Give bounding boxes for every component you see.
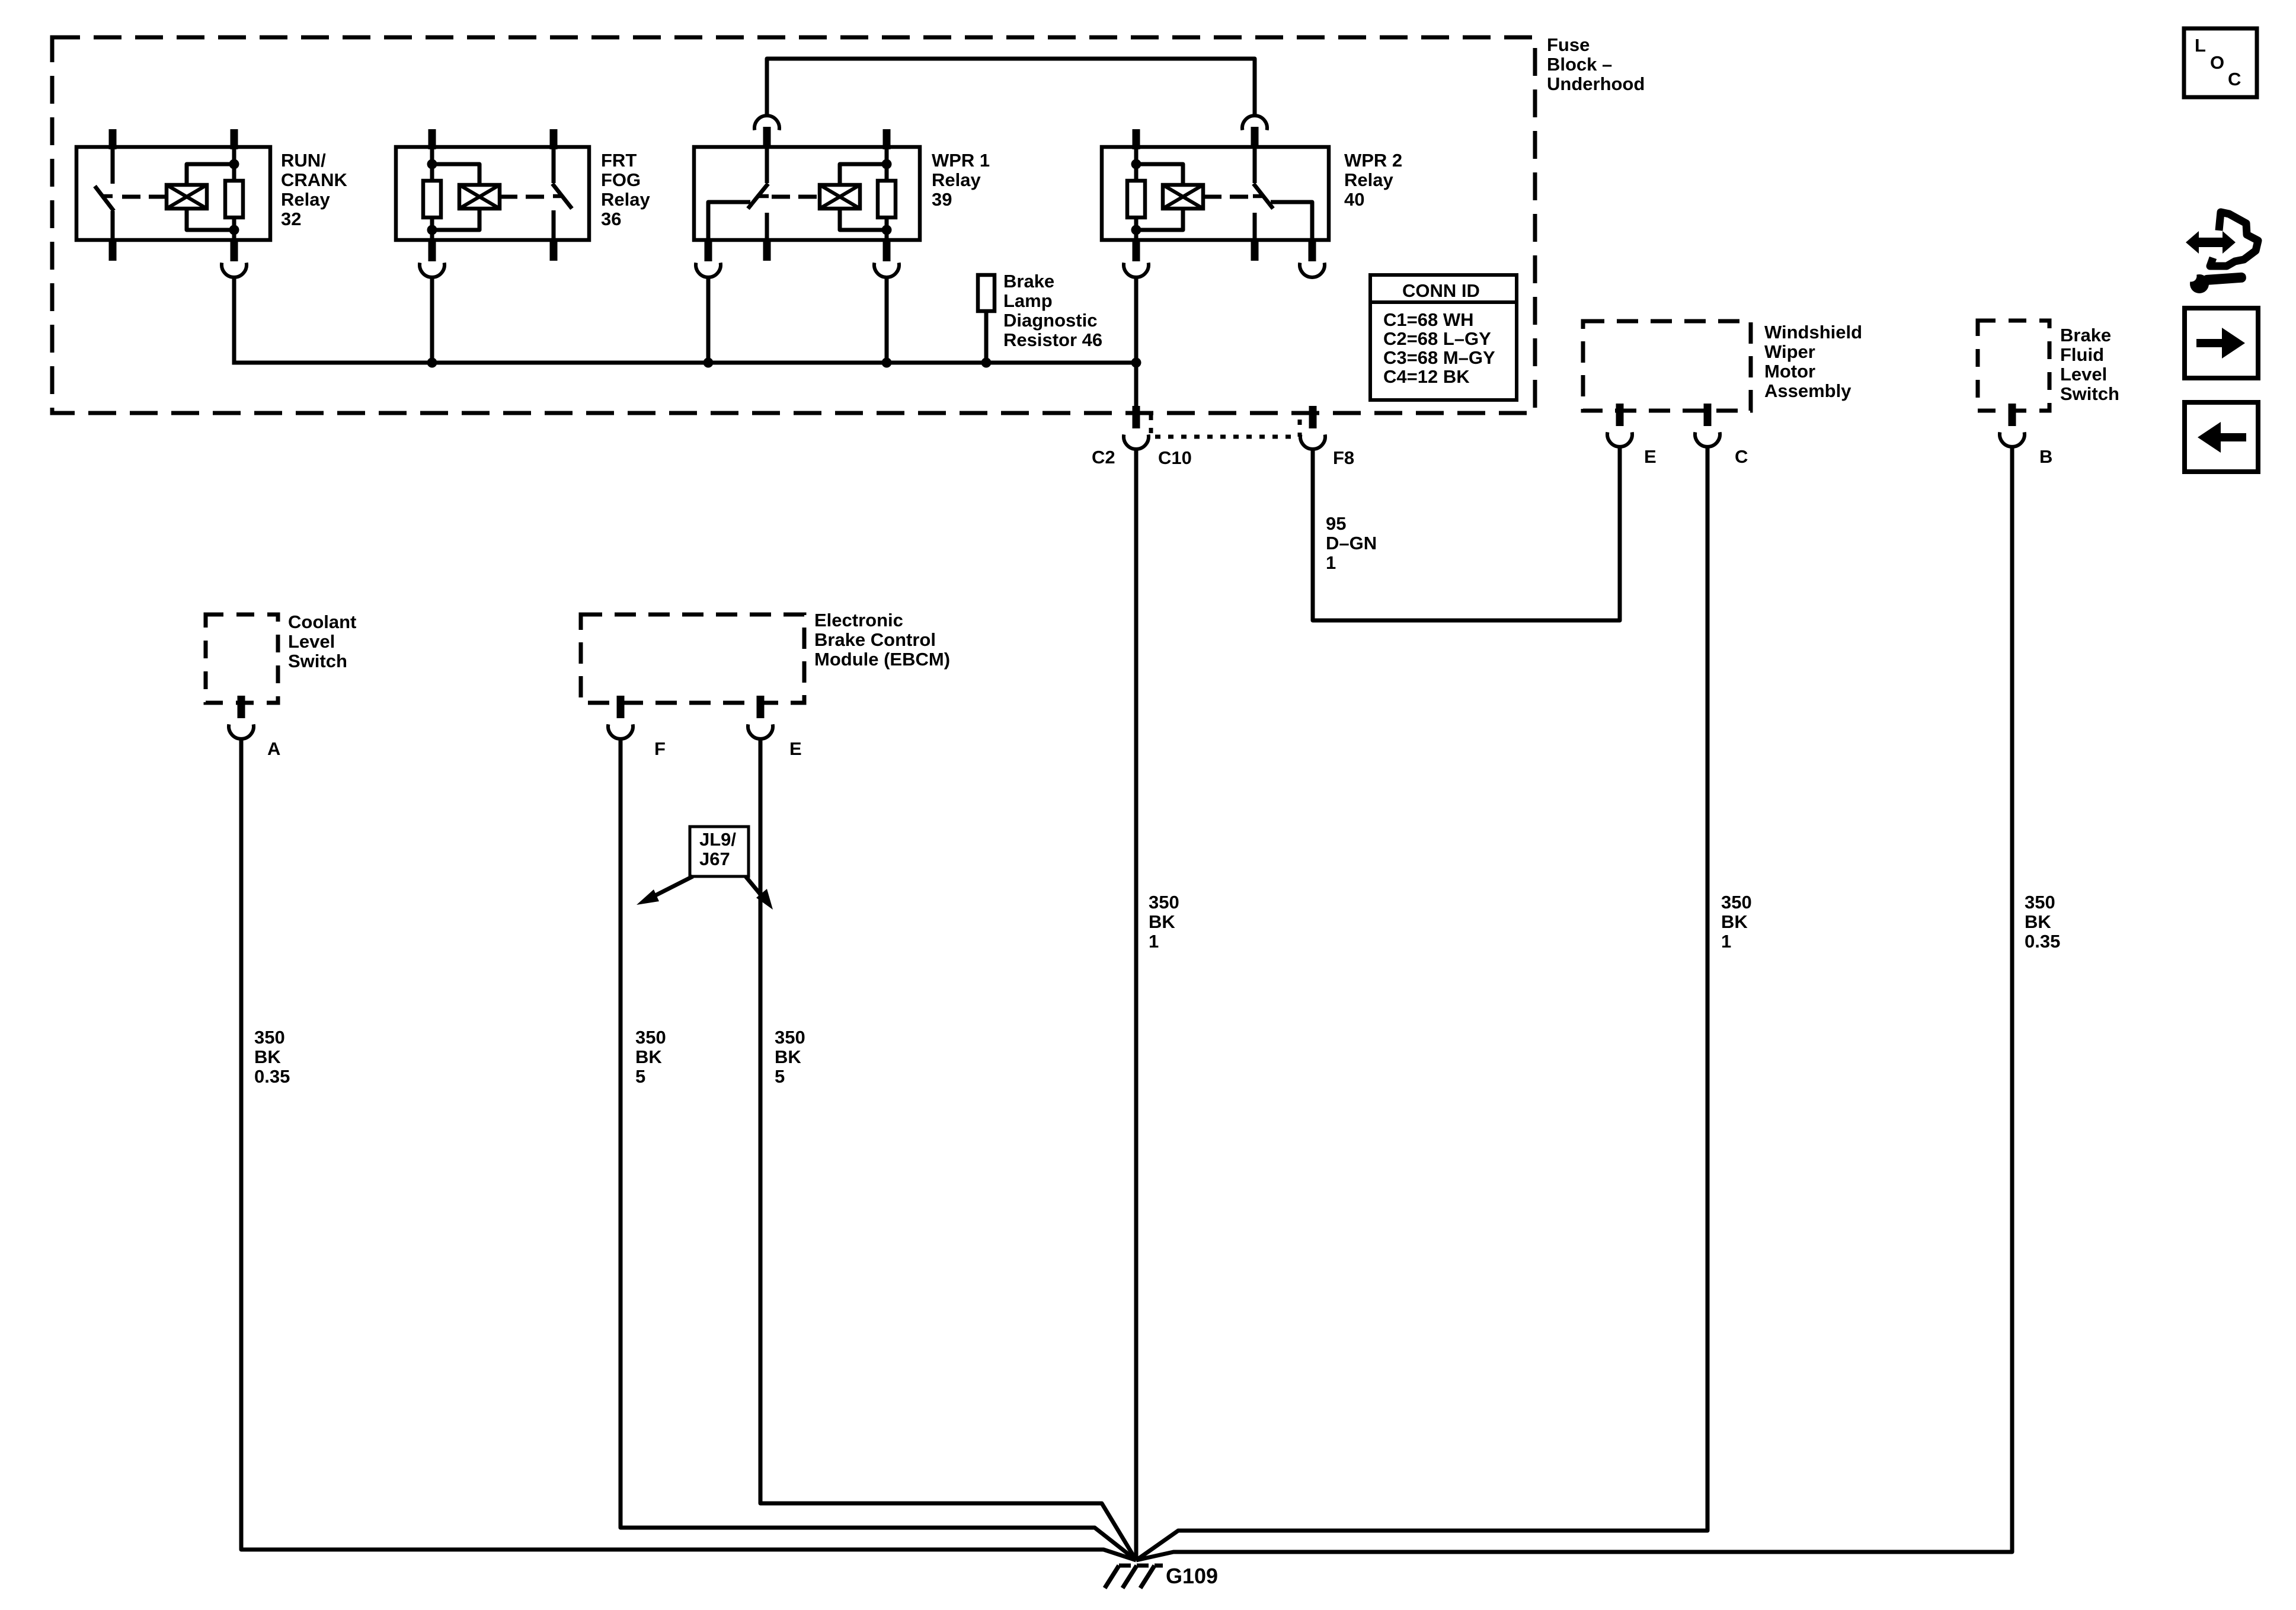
coolant level switch dashed box: [206, 614, 278, 703]
svg-text:350: 350: [1721, 892, 1752, 913]
svg-text:C2=68 L–GY: C2=68 L–GY: [1383, 328, 1491, 349]
wire R46 to ground bus: [984, 311, 989, 363]
wire relay K39 common pin to ground bus: [706, 276, 711, 363]
left arrow icon box: [2185, 402, 2258, 472]
svg-text:1: 1: [1721, 931, 1731, 952]
svg-text:A: A: [267, 738, 280, 759]
relay K40 node junction dots: [1131, 159, 1141, 169]
connector F8: [1309, 406, 1317, 428]
relay K36 coil dash link: [500, 195, 544, 199]
svg-text:C: C: [1735, 446, 1748, 467]
svg-text:Brake Control: Brake Control: [814, 629, 936, 650]
relay K39 resistor: [878, 181, 896, 217]
relay K39 node line lower: [885, 216, 889, 240]
relay K36 coil: [459, 185, 500, 209]
relay K40 pin stub bottom (node): [1133, 239, 1140, 261]
svg-text:RUN/: RUN/: [281, 150, 326, 171]
svg-text:C10: C10: [1158, 447, 1192, 468]
relay K40 switch contact tick: [1253, 194, 1264, 199]
LOC icon box: [2184, 28, 2257, 97]
svg-text:C4=12 BK: C4=12 BK: [1383, 366, 1470, 387]
svg-text:O: O: [2210, 52, 2224, 73]
svg-text:Wiper: Wiper: [1764, 341, 1815, 362]
relay K39 coil wires to resistor node: [840, 164, 887, 185]
brake fluid level switch dashed box: [1978, 321, 2049, 411]
relay K36 pin 4 stub bottom (node): [428, 239, 436, 261]
svg-text:Brake: Brake: [2060, 325, 2111, 345]
relay K32 pin 1 stub top (switch): [109, 129, 117, 149]
svg-text:CONN ID: CONN ID: [1402, 280, 1480, 301]
svg-text:32: 32: [281, 209, 301, 229]
relay K36 node junction dots: [427, 159, 437, 169]
relay K40 box: [1102, 147, 1329, 240]
relay K32 switch contact tick: [101, 194, 113, 199]
wire ground bus: [234, 361, 1136, 365]
svg-text:C1=68 WH: C1=68 WH: [1383, 309, 1473, 330]
relay K39 coil dash link: [772, 195, 820, 199]
relay K32 switch contact line: [111, 211, 115, 240]
svg-text:350: 350: [1149, 892, 1179, 913]
relay K36 pin 1 stub top (coil node): [428, 129, 436, 149]
svg-text:0.35: 0.35: [2025, 931, 2060, 952]
svg-text:350: 350: [635, 1027, 666, 1048]
wire EBCM F to ground: [621, 739, 1136, 1560]
relay K40 node line lower: [1134, 216, 1139, 240]
ground G109 symbol: [1105, 1566, 1119, 1588]
right arrow icon box: [2185, 308, 2258, 378]
relay K40 switch pin line: [1253, 148, 1257, 183]
relay K36 switch contact line: [552, 210, 556, 240]
svg-text:BK: BK: [635, 1046, 662, 1067]
relay K40 pin stub bottom (switch): [1251, 239, 1259, 261]
svg-text:C: C: [2228, 69, 2241, 89]
relay K39 switch to pin wire: [708, 202, 750, 240]
svg-text:BK: BK: [1149, 911, 1175, 932]
brake fluid switch connector B: [2009, 404, 2016, 426]
relay K39 node junction dots: [882, 159, 892, 169]
svg-text:Relay: Relay: [932, 169, 981, 190]
svg-text:350: 350: [775, 1027, 805, 1048]
svg-text:WPR 2: WPR 2: [1344, 150, 1402, 171]
svg-text:350: 350: [2025, 892, 2055, 913]
svg-text:Coolant: Coolant: [288, 612, 356, 632]
relay K36 resistor: [423, 181, 441, 217]
svg-text:95: 95: [1326, 513, 1346, 534]
svg-text:Relay: Relay: [1344, 169, 1393, 190]
relay K39 pin stub bottom (node): [883, 239, 891, 261]
connector C2: [1133, 406, 1140, 428]
relay K36 pin 4 connector: [420, 263, 445, 277]
svg-text:BK: BK: [2025, 911, 2051, 932]
relay K32 coil dash link: [122, 195, 167, 199]
svg-text:WPR 1: WPR 1: [932, 150, 990, 171]
svg-text:Underhood: Underhood: [1547, 73, 1645, 94]
svg-text:Level: Level: [2060, 364, 2107, 385]
svg-text:Motor: Motor: [1764, 361, 1815, 382]
svg-text:L: L: [2195, 35, 2206, 56]
wiper motor connector E: [1616, 404, 1624, 426]
JL9/J67 option box: [690, 827, 749, 876]
svg-text:Switch: Switch: [288, 651, 347, 671]
relay K36 switch pin line: [552, 148, 556, 183]
wire relay K36 to ground bus: [430, 276, 434, 363]
relay K39 pin connector (node): [874, 263, 899, 277]
relay K32 pin 3 stub top (coil node): [231, 129, 238, 149]
relay K36 pin 2 stub top (switch): [550, 129, 558, 149]
relay K32 node junction dots: [229, 159, 239, 169]
diagnostic icon double arrow: [2186, 231, 2236, 254]
relay K39 pin stub top (coil node): [883, 129, 891, 149]
relay K36 switch blade: [552, 184, 572, 209]
EBCM dashed box: [581, 614, 804, 703]
wire relay K32 to ground bus: [232, 276, 236, 365]
svg-text:Assembly: Assembly: [1764, 380, 1851, 401]
svg-text:G109: G109: [1166, 1564, 1218, 1588]
relay K40 pin stub bottom (NO contact): [1309, 239, 1316, 261]
relay K39 pin stub bottom (common): [705, 239, 712, 261]
svg-text:5: 5: [635, 1066, 645, 1087]
svg-text:Switch: Switch: [2060, 383, 2119, 404]
relay K39 switch contact tick: [758, 194, 769, 199]
fuse block underhood dashed border: [52, 37, 1535, 413]
relay K40 switch top connector: [1242, 116, 1267, 130]
relay K36 pin 3 stub bottom (switch): [550, 239, 558, 261]
svg-text:Fluid: Fluid: [2060, 344, 2104, 365]
svg-text:Module (EBCM): Module (EBCM): [814, 649, 950, 670]
svg-text:F8: F8: [1333, 447, 1354, 468]
wire top loop K39 switch to K40 switch: [767, 59, 1255, 117]
diagnostic icon wrench: [2190, 274, 2209, 293]
wire A to ground: [241, 739, 1136, 1560]
relay K39 pin connector (common): [696, 263, 721, 277]
relay K39 pin stub bottom (switch): [763, 239, 771, 261]
svg-text:D–GN: D–GN: [1326, 533, 1377, 553]
relay K40 coil dash link: [1204, 195, 1248, 199]
wire C2 to ground G109: [1134, 449, 1139, 1560]
relay K32 resistor: [225, 181, 243, 217]
diagnostic icon outline: [2210, 212, 2258, 266]
relay K32 coil wires to resistor node: [187, 164, 234, 185]
svg-text:FOG: FOG: [601, 169, 641, 190]
svg-text:E: E: [1644, 446, 1657, 467]
relay K39 switch pin line: [765, 148, 769, 183]
connector C10 dotted outline: [1151, 415, 1300, 437]
JL9/J67 arrow to wire E: [746, 876, 765, 900]
wiper motor connector C: [1704, 404, 1712, 426]
relay K39 switch blade: [748, 184, 768, 209]
relay K32 box: [76, 147, 270, 240]
relay K36 switch contact tick: [553, 194, 563, 199]
relay K40 node line upper: [1134, 148, 1139, 182]
ground bus junction dots: [427, 358, 437, 368]
svg-text:Brake: Brake: [1003, 271, 1054, 292]
EBCM connector E: [757, 696, 765, 718]
svg-text:Block –: Block –: [1547, 54, 1612, 75]
svg-text:Windshield: Windshield: [1764, 322, 1862, 343]
relay K39 node line upper: [885, 148, 889, 182]
svg-text:1: 1: [1326, 552, 1336, 573]
coolant switch connector A: [238, 696, 245, 718]
svg-text:C2: C2: [1092, 447, 1115, 468]
relay K40 coil: [1163, 185, 1203, 209]
windshield wiper motor assembly dashed box: [1583, 321, 1751, 411]
relay K36 node line lower: [430, 216, 434, 240]
svg-text:Resistor 46: Resistor 46: [1003, 329, 1102, 350]
svg-text:Fuse: Fuse: [1547, 34, 1590, 55]
relay K32 switch blade: [95, 186, 114, 211]
relay K40 pin connector (NO contact): [1300, 263, 1325, 277]
relay K36 node line upper: [430, 148, 434, 182]
relay K32 node line upper: [232, 148, 236, 182]
relay K32 switch pin line: [111, 148, 115, 184]
svg-text:39: 39: [932, 189, 952, 210]
EBCM connector F: [617, 696, 625, 718]
relay K39 switch contact line: [765, 213, 769, 240]
svg-text:F: F: [654, 738, 666, 759]
relay K40 pin stub top (coil node): [1133, 129, 1140, 149]
CONN ID table box: [1370, 275, 1517, 400]
svg-text:BK: BK: [1721, 911, 1748, 932]
svg-text:Relay: Relay: [281, 189, 330, 210]
svg-text:Diagnostic: Diagnostic: [1003, 310, 1097, 331]
svg-text:C3=68 M–GY: C3=68 M–GY: [1383, 347, 1495, 368]
svg-text:CRANK: CRANK: [281, 169, 348, 190]
resistor R46 brake lamp diagnostic: [978, 275, 994, 311]
svg-text:1: 1: [1149, 931, 1159, 952]
relay K40 coil wires to resistor node: [1136, 164, 1183, 185]
svg-text:Electronic: Electronic: [814, 610, 903, 630]
relay K40 resistor: [1127, 181, 1145, 217]
svg-text:BK: BK: [254, 1046, 281, 1067]
relay K39 switch top connector: [754, 116, 779, 130]
relay K32 pin 2 stub bottom (switch): [109, 239, 117, 261]
svg-text:36: 36: [601, 209, 621, 229]
wire relay K39 node pin to ground bus: [885, 276, 889, 363]
wire K40 node pin to C2: [1134, 276, 1139, 413]
relay K40 switch contact line: [1253, 213, 1257, 240]
wire wiper motor C to ground: [1136, 447, 1707, 1560]
wire F8 to wiper motor pin E: [1313, 447, 1620, 620]
relay K32 node line lower: [232, 216, 236, 240]
svg-text:350: 350: [254, 1027, 285, 1048]
svg-text:BK: BK: [775, 1046, 801, 1067]
relay K32 coil: [167, 185, 207, 209]
relay K32 pin 4 stub bottom (node): [231, 239, 238, 261]
JL9/J67 arrow to wire F: [651, 876, 693, 898]
svg-text:Level: Level: [288, 631, 335, 652]
svg-text:B: B: [2039, 446, 2052, 467]
svg-text:FRT: FRT: [601, 150, 637, 171]
right arrow icon: [2196, 328, 2245, 359]
left arrow icon: [2198, 422, 2246, 453]
relay K36 coil wires to resistor node: [432, 164, 479, 185]
svg-text:E: E: [789, 738, 802, 759]
wire EBCM E to ground: [760, 739, 1136, 1560]
svg-text:Lamp: Lamp: [1003, 290, 1053, 311]
relay K39 box: [694, 147, 920, 240]
relay K36 box: [396, 147, 589, 240]
relay K40 switch blade: [1253, 184, 1273, 209]
svg-text:0.35: 0.35: [254, 1066, 290, 1087]
relay K40 switch to pin wire: [1271, 202, 1312, 240]
svg-text:JL9/: JL9/: [699, 829, 736, 850]
svg-text:40: 40: [1344, 189, 1364, 210]
svg-text:J67: J67: [699, 849, 730, 869]
wire B to ground: [1136, 447, 2012, 1560]
relay K39 coil: [820, 185, 860, 209]
svg-text:5: 5: [775, 1066, 785, 1087]
svg-text:Relay: Relay: [601, 189, 650, 210]
relay K32 pin 4 connector: [222, 263, 247, 277]
relay K40 pin connector (node): [1124, 263, 1149, 277]
